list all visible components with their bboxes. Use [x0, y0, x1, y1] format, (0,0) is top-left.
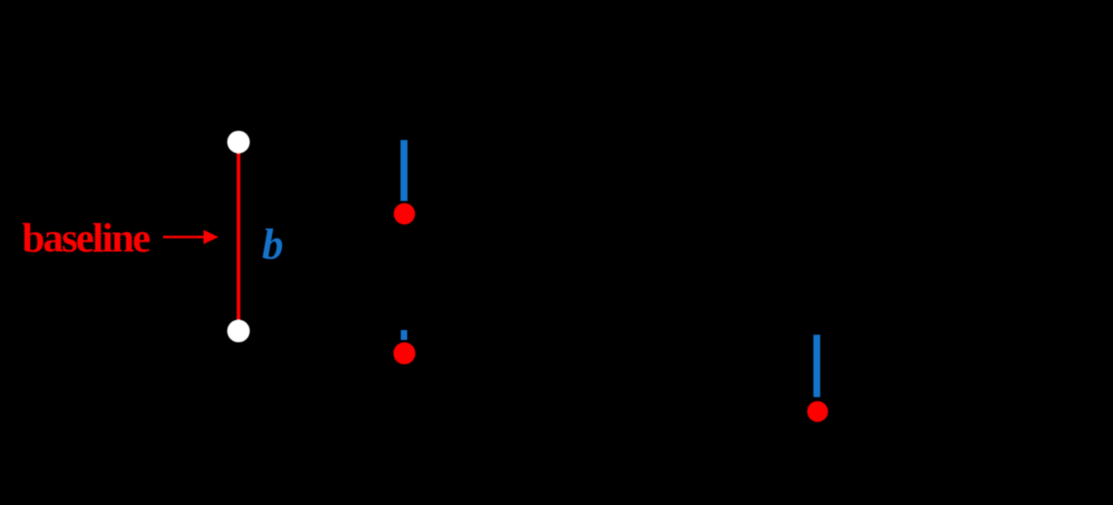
svg-text:baseline: baseline: [22, 215, 150, 261]
svg-text:b: b: [262, 222, 284, 269]
